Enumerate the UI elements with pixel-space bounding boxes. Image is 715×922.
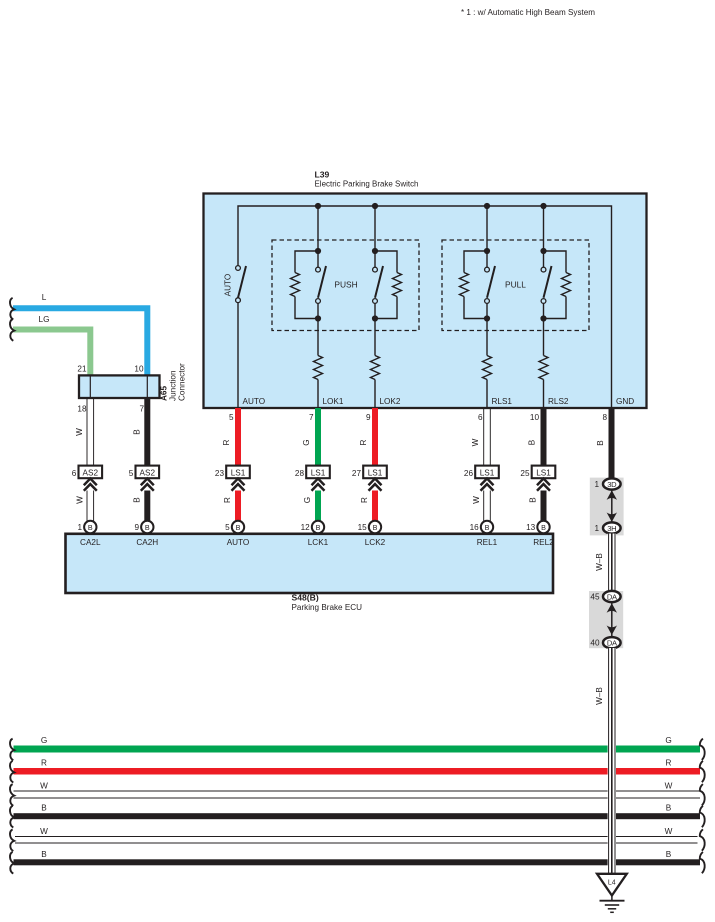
ECU pin label LCK1 bbox=[308, 538, 329, 547]
shield gray block 3D/3H bbox=[590, 478, 624, 536]
wire B from L39 pin down to LS1 bbox=[528, 408, 547, 466]
ECU pin 13 circle B terminal bbox=[526, 521, 550, 533]
connector mating arrows below LS1 pin 26 bbox=[481, 479, 494, 491]
svg-text:R: R bbox=[666, 759, 672, 768]
connector arrow down above 3H bbox=[607, 512, 617, 522]
connector oval 3H pin 1 bbox=[594, 522, 620, 533]
connector arrow up below DA 45 bbox=[607, 603, 617, 613]
wire: AUTO switch to pin 5 bbox=[237, 303, 239, 408]
L39 Electric Parking Brake Switch box bbox=[204, 170, 647, 409]
wire L (blue) with break squiggle bbox=[10, 293, 147, 375]
svg-text:6: 6 bbox=[478, 413, 483, 422]
svg-text:G: G bbox=[41, 736, 47, 745]
svg-text:12: 12 bbox=[301, 523, 311, 532]
svg-text:W: W bbox=[665, 782, 673, 791]
ECU pin label LCK2 bbox=[365, 538, 386, 547]
wire between DA ovals bbox=[611, 602, 613, 638]
node: bus junction LOK1 bbox=[315, 203, 321, 209]
connector arrow up below 3D bbox=[607, 490, 617, 500]
svg-text:DA: DA bbox=[607, 639, 618, 648]
svg-text:W: W bbox=[75, 496, 84, 504]
svg-text:Parking Brake ECU: Parking Brake ECU bbox=[292, 602, 363, 612]
ECU pin label REL2 bbox=[533, 538, 554, 547]
switch AUTO bbox=[224, 266, 247, 303]
connector mating arrows below AS2 pin 6 bbox=[84, 479, 97, 491]
connector LS1 pin 23 bbox=[215, 466, 250, 479]
bus wire W row 3 bbox=[10, 782, 705, 806]
ECU pin 15 circle B terminal bbox=[358, 521, 382, 533]
svg-text:3D: 3D bbox=[607, 480, 617, 489]
wire W-B from DA pin 40 to ground L4 bbox=[595, 648, 616, 874]
svg-text:B: B bbox=[132, 429, 141, 435]
ECU S48(B) Parking Brake ECU box bbox=[66, 534, 554, 612]
resistor series RLS2 column bbox=[539, 319, 548, 409]
svg-text:25: 25 bbox=[520, 469, 530, 478]
ECU pin label AUTO bbox=[227, 538, 250, 547]
wire: bus to LOK1 cell bbox=[317, 206, 319, 251]
note: w/ Automatic High Beam System bbox=[461, 7, 595, 17]
svg-text:B: B bbox=[373, 523, 378, 532]
svg-text:LS1: LS1 bbox=[231, 468, 246, 477]
pin 10 label RLS2 of L39 bbox=[530, 397, 569, 422]
node: top junction LOK2 bbox=[372, 248, 378, 254]
svg-text:B: B bbox=[485, 523, 490, 532]
svg-text:LOK2: LOK2 bbox=[380, 397, 401, 406]
svg-text:B: B bbox=[88, 523, 93, 532]
svg-text:AUTO: AUTO bbox=[243, 397, 266, 406]
svg-text:G: G bbox=[665, 736, 671, 745]
svg-text:10: 10 bbox=[134, 365, 144, 374]
pin 7 label LOK1 of L39 bbox=[309, 397, 344, 422]
svg-text:W–B: W–B bbox=[595, 687, 604, 705]
wire LG (light green) with break squiggle bbox=[10, 315, 90, 375]
svg-text:B: B bbox=[528, 439, 537, 445]
node: bottom junction RLS1 bbox=[484, 315, 490, 321]
svg-text:LCK2: LCK2 bbox=[365, 538, 386, 547]
svg-text:G: G bbox=[303, 497, 312, 503]
svg-text:GND: GND bbox=[616, 397, 634, 406]
svg-text:B: B bbox=[596, 440, 605, 446]
svg-text:B: B bbox=[666, 804, 672, 813]
svg-text:W: W bbox=[40, 782, 48, 791]
svg-text:40: 40 bbox=[590, 639, 600, 648]
svg-text:LS1: LS1 bbox=[311, 468, 326, 477]
node: bottom junction RLS2 bbox=[540, 315, 546, 321]
switch LOK1 bbox=[316, 251, 326, 319]
wire G from L39 pin down to LS1 bbox=[302, 408, 321, 466]
switch LOK2 bbox=[373, 251, 383, 319]
svg-text:DA: DA bbox=[607, 592, 618, 601]
svg-text:AS2: AS2 bbox=[140, 468, 156, 477]
pin 5 label AUTO of L39 bbox=[229, 397, 265, 422]
svg-text:27: 27 bbox=[352, 469, 362, 478]
wire R to ECU pin 5 bbox=[223, 491, 241, 522]
svg-text:1: 1 bbox=[594, 480, 599, 489]
node: top junction RLS2 bbox=[540, 248, 546, 254]
wire R to ECU pin 15 bbox=[360, 491, 378, 522]
svg-text:A65: A65 bbox=[160, 386, 169, 401]
resistor series LOK1 column bbox=[314, 319, 323, 409]
connector oval DA pin 45 bbox=[590, 591, 620, 602]
bus wire B row 4 bbox=[10, 804, 705, 828]
svg-text:B: B bbox=[529, 497, 538, 503]
ground L4 bbox=[597, 874, 627, 913]
node: top junction RLS1 bbox=[484, 248, 490, 254]
svg-text:L: L bbox=[42, 293, 47, 302]
svg-text:B: B bbox=[316, 523, 321, 532]
connector AS2 pin 5 bbox=[129, 466, 159, 479]
connector mating arrows below AS2 pin 5 bbox=[141, 479, 154, 491]
svg-text:Junction: Junction bbox=[169, 370, 178, 401]
svg-text:5: 5 bbox=[225, 523, 230, 532]
connector oval DA pin 40 bbox=[590, 637, 620, 648]
svg-text:B: B bbox=[145, 523, 150, 532]
svg-text:R: R bbox=[41, 759, 47, 768]
svg-text:21: 21 bbox=[77, 365, 87, 374]
wire: bus to RLS1 cell bbox=[486, 206, 488, 251]
ECU pin label CA2H bbox=[136, 538, 158, 547]
svg-text:18: 18 bbox=[77, 405, 87, 414]
svg-text:7: 7 bbox=[309, 413, 314, 422]
ECU pin 9 circle B terminal bbox=[134, 521, 153, 533]
svg-text:LS1: LS1 bbox=[480, 468, 495, 477]
dashed box PUSH bbox=[272, 240, 419, 331]
ECU pin 5 circle B terminal bbox=[225, 521, 244, 533]
svg-text:RLS2: RLS2 bbox=[548, 397, 569, 406]
connector LS1 pin 26 bbox=[464, 466, 499, 479]
connector mating arrows below LS1 pin 23 bbox=[232, 479, 245, 491]
wire B from A65 pin 7 to AS2 bbox=[132, 398, 150, 466]
node: bus junction RLS2 bbox=[540, 203, 546, 209]
wire W-B from 3H to DA 45 bbox=[595, 534, 616, 592]
svg-text:PUSH: PUSH bbox=[334, 280, 357, 290]
svg-text:B: B bbox=[41, 804, 47, 813]
node: bus junction RLS1 bbox=[484, 203, 490, 209]
svg-text:LS1: LS1 bbox=[536, 468, 551, 477]
svg-text:AS2: AS2 bbox=[83, 468, 99, 477]
bus wire G row 1 bbox=[10, 736, 705, 760]
wire: top bus inside L39 to GND pin 8 bbox=[238, 206, 612, 408]
pin 6 label RLS1 of L39 bbox=[478, 397, 512, 422]
svg-text:W: W bbox=[75, 428, 84, 436]
wire W from A65 pin 18 to AS2 bbox=[75, 398, 94, 466]
wire B to ECU pin 9 bbox=[132, 491, 150, 522]
svg-text:26: 26 bbox=[464, 469, 474, 478]
connector mating arrows below LS1 pin 28 bbox=[312, 479, 325, 491]
svg-text:AUTO: AUTO bbox=[227, 538, 250, 547]
svg-text:28: 28 bbox=[295, 469, 305, 478]
svg-text:W: W bbox=[665, 827, 673, 836]
wire R from L39 pin down to LS1 bbox=[359, 408, 378, 466]
wire W to ECU pin 1 bbox=[75, 491, 93, 522]
connector arrow down above DA 40 bbox=[607, 625, 617, 635]
resistor R3 parallel with RLS1 bbox=[460, 251, 488, 319]
switch RLS1 bbox=[485, 251, 495, 319]
svg-text:15: 15 bbox=[358, 523, 368, 532]
svg-text:B: B bbox=[41, 850, 47, 859]
svg-text:R: R bbox=[222, 439, 231, 445]
node: bus junction LOK2 bbox=[372, 203, 378, 209]
node: bottom junction LOK1 bbox=[315, 315, 321, 321]
svg-text:PULL: PULL bbox=[505, 280, 526, 290]
svg-text:7: 7 bbox=[139, 405, 144, 414]
svg-text:W: W bbox=[471, 438, 480, 446]
wire between 3D and 3H bbox=[611, 489, 613, 524]
wire: bus to LOK2 cell bbox=[374, 206, 376, 251]
svg-text:Electric Parking Brake Switch: Electric Parking Brake Switch bbox=[315, 179, 419, 189]
svg-text:R: R bbox=[360, 497, 369, 503]
svg-text:W: W bbox=[40, 827, 48, 836]
svg-text:9: 9 bbox=[134, 523, 139, 532]
pin 9 label LOK2 of L39 bbox=[366, 397, 401, 422]
svg-text:13: 13 bbox=[526, 523, 536, 532]
dashed box PULL bbox=[442, 240, 589, 331]
svg-text:23: 23 bbox=[215, 469, 225, 478]
pin 8 label GND of L39 bbox=[602, 397, 634, 422]
svg-text:LCK1: LCK1 bbox=[308, 538, 329, 547]
bus wire R row 2 bbox=[10, 759, 705, 783]
wire W to ECU pin 16 bbox=[472, 491, 490, 522]
svg-text:8: 8 bbox=[602, 413, 607, 422]
node: bottom junction LOK2 bbox=[372, 315, 378, 321]
bus wire W row 5 bbox=[10, 827, 705, 851]
connector mating arrows below LS1 pin 27 bbox=[369, 479, 382, 491]
svg-text:REL2: REL2 bbox=[533, 538, 554, 547]
svg-text:LG: LG bbox=[39, 315, 50, 324]
svg-text:5: 5 bbox=[229, 413, 234, 422]
svg-text:LOK1: LOK1 bbox=[323, 397, 344, 406]
svg-text:1: 1 bbox=[594, 524, 599, 533]
wire B from L39 pin 8 GND bbox=[596, 408, 615, 479]
svg-text:B: B bbox=[541, 523, 546, 532]
connector LS1 pin 28 bbox=[295, 466, 330, 479]
svg-text:45: 45 bbox=[590, 593, 600, 602]
svg-text:R: R bbox=[223, 497, 232, 503]
svg-text:6: 6 bbox=[72, 469, 77, 478]
bus wire B row 6 bbox=[10, 850, 705, 874]
svg-text:G: G bbox=[302, 439, 311, 445]
ECU pin label REL1 bbox=[477, 538, 498, 547]
svg-text:16: 16 bbox=[470, 523, 480, 532]
shield gray block DA/DA bbox=[589, 591, 623, 648]
svg-text:9: 9 bbox=[366, 413, 371, 422]
svg-text:3H: 3H bbox=[607, 524, 616, 533]
switch RLS2 bbox=[541, 251, 551, 319]
resistor series RLS1 column bbox=[483, 319, 492, 409]
svg-text:B: B bbox=[666, 850, 672, 859]
connector LS1 pin 27 bbox=[352, 466, 387, 479]
svg-text:* 1 : w/ Automatic High Beam S: * 1 : w/ Automatic High Beam System bbox=[461, 7, 595, 17]
connector LS1 pin 25 bbox=[520, 466, 555, 479]
svg-text:L4: L4 bbox=[608, 880, 616, 887]
connector AS2 pin 6 bbox=[72, 466, 102, 479]
svg-text:B: B bbox=[132, 497, 141, 503]
ECU pin 1 circle B terminal bbox=[77, 521, 96, 533]
resistor series LOK2 column bbox=[371, 319, 380, 409]
svg-text:B: B bbox=[236, 523, 241, 532]
svg-text:5: 5 bbox=[129, 469, 134, 478]
svg-text:LS1: LS1 bbox=[368, 468, 383, 477]
wire R from L39 pin down to LS1 bbox=[222, 408, 241, 466]
wire W from L39 pin down to LS1 bbox=[471, 408, 490, 466]
node: top junction LOK1 bbox=[315, 248, 321, 254]
svg-text:CA2L: CA2L bbox=[80, 538, 101, 547]
resistor R2 parallel with LOK2 bbox=[375, 251, 402, 319]
resistor R4 parallel with RLS2 bbox=[544, 251, 571, 319]
wire B to ECU pin 13 bbox=[529, 491, 547, 522]
connector oval 3D pin 1 bbox=[594, 478, 620, 489]
connector mating arrows below LS1 pin 25 bbox=[537, 479, 550, 491]
svg-text:1: 1 bbox=[77, 523, 82, 532]
svg-text:R: R bbox=[359, 439, 368, 445]
junction connector A65 bbox=[77, 363, 186, 414]
resistor R1 parallel with LOK1 bbox=[291, 251, 319, 319]
svg-text:RLS1: RLS1 bbox=[492, 397, 513, 406]
svg-text:W: W bbox=[472, 496, 481, 504]
svg-text:10: 10 bbox=[530, 413, 540, 422]
wire: bus to RLS2 cell bbox=[543, 206, 545, 251]
ECU pin 12 circle B terminal bbox=[301, 521, 325, 533]
svg-text:Connector: Connector bbox=[178, 363, 187, 401]
ECU pin label CA2L bbox=[80, 538, 101, 547]
svg-text:CA2H: CA2H bbox=[136, 538, 158, 547]
svg-text:REL1: REL1 bbox=[477, 538, 498, 547]
ECU pin 16 circle B terminal bbox=[470, 521, 494, 533]
wire G to ECU pin 12 bbox=[303, 491, 321, 522]
svg-text:AUTO: AUTO bbox=[224, 274, 233, 297]
svg-text:W–B: W–B bbox=[595, 553, 604, 571]
